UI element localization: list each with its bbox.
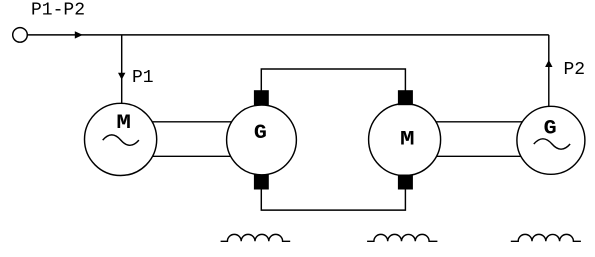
- svg-text:P1: P1: [132, 68, 154, 88]
- brush M2 bottom: [398, 175, 413, 190]
- generator G1 (DC): [227, 105, 297, 175]
- brush G1 top: [254, 90, 269, 105]
- svg-text:G: G: [544, 118, 557, 141]
- wire drop to motor M1: [121, 35, 123, 106]
- wire drop to generator G2: [548, 35, 550, 108]
- brush G1 bottom: [254, 175, 269, 190]
- arrow on top bus: [75, 31, 83, 38]
- shaft coupling M2-G2: [404, 122, 551, 157]
- generator G2 (AC): [517, 106, 585, 174]
- inductor L3: [511, 234, 581, 241]
- inductor L2: [367, 234, 437, 241]
- wire G1 bottom brush to M2 bottom brush: [261, 189, 405, 210]
- terminal: [13, 28, 28, 43]
- AC wave in M1: [103, 135, 139, 145]
- svg-text:P1-P2: P1-P2: [31, 0, 85, 20]
- wire G1 top brush to M2 top brush: [261, 69, 405, 91]
- arrow P2 (up): [545, 60, 552, 67]
- brush M2 top: [398, 90, 413, 105]
- arrow P1 (down): [118, 73, 125, 80]
- AC wave in G2: [534, 139, 570, 149]
- motor M1 (AC): [85, 103, 157, 175]
- svg-text:G: G: [254, 122, 267, 145]
- wire top bus P1-P2: [27, 34, 549, 36]
- svg-text:P2: P2: [564, 60, 586, 80]
- svg-text:M: M: [400, 129, 415, 152]
- shaft coupling M1-G1: [120, 122, 262, 157]
- inductor L1: [221, 234, 291, 241]
- svg-text:M: M: [116, 112, 131, 135]
- motor M2 (DC): [369, 104, 441, 176]
